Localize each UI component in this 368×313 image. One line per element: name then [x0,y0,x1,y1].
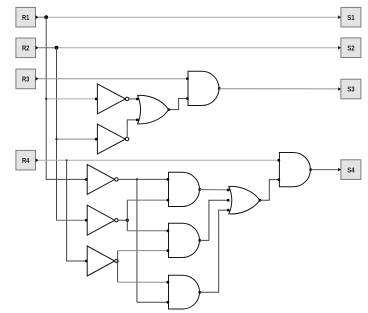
wire R2 stub [39,47,57,49]
svg-text:S3: S3 [347,87,354,94]
inverter U5 [85,205,118,235]
and-gate U3 [186,71,221,105]
or-gate U10 [227,186,261,214]
wire net R4 to AND U9 [39,159,280,161]
junction R2 [55,46,59,50]
svg-text:R2: R2 [22,46,29,53]
wire NOT4 to AND U8c lower [137,301,168,303]
wire OR U10 to AND U9 [260,180,279,201]
svg-text:R1: R1 [22,15,29,22]
input R4 [16,150,39,170]
wire NOT U6 vertical [117,251,119,283]
wire AND U3 to S3 [219,88,338,90]
wire R4 to NOT U6 [67,260,87,262]
input R2 [16,38,39,58]
wire NOT U4 to AND U8a [118,178,168,180]
wire net R2 to S2 [57,47,339,49]
and-gate U8b [167,223,202,257]
and-gate U8a [167,172,202,206]
svg-text:R3: R3 [22,77,29,84]
output S2 [338,38,361,58]
wire NOT U2 to OR U7 [127,120,137,138]
svg-text:R4: R4 [22,158,29,165]
inverter U4 [85,164,118,194]
output S1 [338,7,361,27]
wire NOT6 to AND U8c upper [118,281,168,283]
inverter U2 [95,124,129,154]
wire NOT5 to AND U8b upper [127,230,168,232]
or-gate U7 [136,95,170,124]
input R3 [16,69,39,89]
inverter U1 [95,84,129,114]
wire R2 to NOT U5 [57,219,87,221]
wire R1 vertical [45,17,47,179]
junction NOT4 split [136,178,138,180]
wire NOT U5 output [118,219,127,221]
and-gate U8c [167,275,202,309]
wire R3 to AND U3 [39,78,188,80]
junction R4 [66,159,68,161]
svg-text:S4: S4 [347,167,354,174]
wire R1 stub [39,16,46,18]
wire AND U8a to OR U10 [200,189,228,191]
wire NOT5 vertical [126,200,128,231]
wire R1 to NOT U4 [46,178,86,180]
wire R2 branch to NOT U2 [57,138,97,140]
wire NOT5 to AND U8a lower [127,199,168,201]
input R1 [16,7,39,27]
inverter U6 [85,246,118,276]
wire R1 branch to NOT U1 [46,98,96,100]
output S4 [338,160,361,180]
output S3 [338,79,361,99]
svg-text:S2: S2 [347,45,354,52]
wire AND U8b to OR U10 [200,200,228,240]
junction NOT5 split [126,219,129,222]
wire NOT6 to AND U8b lower [118,250,168,252]
wire NOT4 vertical [136,179,138,302]
wire AND U9 to S4 [311,169,338,171]
junction R2-NOT2 tap [55,138,57,140]
wire AND U8c to OR U10 [200,210,228,292]
wire R2 vertical [56,48,58,221]
wire NOT U1 to OR U7 [129,98,137,100]
wire R4 vertical [66,160,68,261]
wire OR U7 to AND U3 [169,99,188,110]
junction R1 [44,15,48,19]
wire net R1 to S1 [46,16,338,18]
and-gate U9 [277,153,312,187]
junction NOT6 bubble tap [117,260,119,262]
svg-text:S1: S1 [347,15,354,22]
junction R1-NOT1 tap [45,98,47,100]
